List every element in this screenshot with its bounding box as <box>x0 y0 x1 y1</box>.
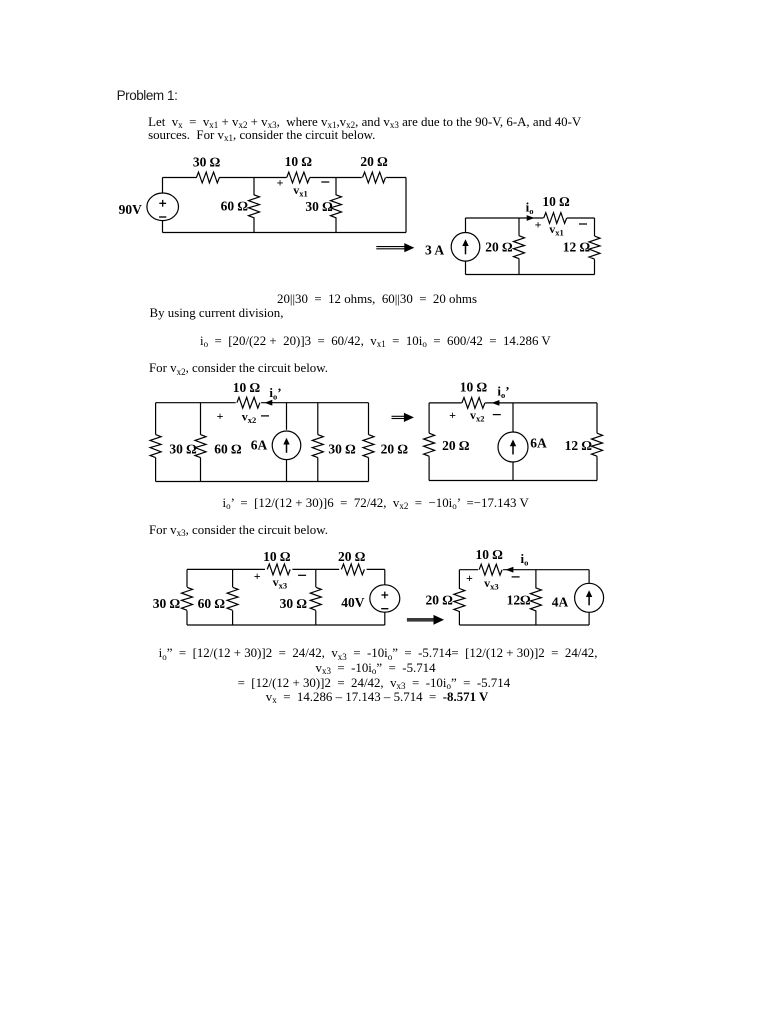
wire C2R bottom <box>429 480 597 482</box>
svg-text:30 Ω: 30 Ω <box>169 442 197 457</box>
svg-text:20 Ω: 20 Ω <box>381 442 409 457</box>
svg-text:vx3: vx3 <box>484 576 499 592</box>
resistor 20ohm C2R left branch <box>428 403 430 433</box>
resistor 30ohm C1L vertical <box>331 195 342 218</box>
resistor 10ohm C2L top <box>237 397 260 408</box>
svg-text:60 Ω: 60 Ω <box>221 198 249 213</box>
svg-text:+: + <box>254 569 261 583</box>
resistor 30ohm C3L left branch <box>186 569 188 587</box>
wire C1L 30ohm branch <box>335 178 337 196</box>
svg-text:6A: 6A <box>251 438 268 453</box>
svg-text:12Ω: 12Ω <box>507 592 532 607</box>
svg-text:+: + <box>535 218 542 232</box>
svg-text:io: io <box>526 199 534 216</box>
svg-text:10 Ω: 10 Ω <box>263 549 291 564</box>
resistor 20ohm C1L top <box>363 172 386 183</box>
svg-text:10 Ω: 10 Ω <box>542 194 570 209</box>
arrow io C3R <box>506 567 514 573</box>
wire C1L bottom <box>163 232 407 234</box>
svg-text:+: + <box>466 571 473 585</box>
svg-text:30 Ω: 30 Ω <box>280 596 308 611</box>
svg-text:30 Ω: 30 Ω <box>153 596 181 611</box>
resistor 20ohm C3R left branch <box>458 570 460 589</box>
big arrow row1 <box>376 246 407 248</box>
resistor 20ohm C3L top <box>341 564 364 575</box>
resistor 30ohm C2L right-mid branch <box>317 403 319 435</box>
wire C3R bottom <box>459 624 589 626</box>
svg-text:10 Ω: 10 Ω <box>233 380 261 395</box>
svg-text:10 Ω: 10 Ω <box>475 547 503 562</box>
svg-text:20 Ω: 20 Ω <box>442 438 470 453</box>
svg-text:12 Ω: 12 Ω <box>565 438 593 453</box>
svg-text:vx2: vx2 <box>242 410 257 426</box>
svg-text:10 Ω: 10 Ω <box>285 154 313 169</box>
svg-text:io: io <box>520 551 528 568</box>
wire C1R right branch <box>594 218 596 236</box>
wire C1R left branch <box>465 218 467 233</box>
polarity - vx3 C3R <box>512 576 520 578</box>
resistor 10ohm C3R top <box>479 564 502 575</box>
resistor 60ohm C2L branch <box>200 403 202 435</box>
svg-text:vx2: vx2 <box>470 408 485 424</box>
resistor 10ohm C1R <box>544 213 567 224</box>
svg-text:30 Ω: 30 Ω <box>193 155 221 170</box>
big arrow row2 <box>392 415 407 417</box>
wire C3R top <box>459 569 478 571</box>
current source 6A C2L <box>286 403 288 430</box>
svg-text:20 Ω: 20 Ω <box>485 239 513 254</box>
wire C1L top <box>163 177 197 179</box>
arrow io C1R <box>527 215 535 221</box>
polarity - vx2 C2R <box>493 414 501 416</box>
wire C1R 20ohm branch <box>518 218 520 236</box>
resistor 60ohm C1L <box>249 195 260 218</box>
svg-text:30 Ω: 30 Ω <box>328 442 356 457</box>
resistor 10ohm C1L top <box>287 172 310 183</box>
svg-text:4A: 4A <box>552 595 569 610</box>
polarity - vx2 C2L <box>261 415 269 417</box>
svg-text:+: + <box>277 176 284 190</box>
svg-text:30 Ω: 30 Ω <box>305 199 333 214</box>
svg-text:90V: 90V <box>119 202 143 217</box>
wire C2L top <box>156 402 236 404</box>
svg-text:20 Ω: 20 Ω <box>425 593 453 608</box>
resistor 30ohm C3L mid branch <box>315 569 317 587</box>
wire C3L bottom <box>187 624 385 626</box>
resistor 20ohm C2L right branch <box>368 403 370 435</box>
svg-text:vx3: vx3 <box>273 575 288 591</box>
wire C1R bottom <box>466 274 595 276</box>
arrow io-prime C2L <box>265 400 273 406</box>
resistor 30ohm C1L top <box>196 172 219 183</box>
current source 4A C3R <box>588 570 590 584</box>
svg-text:12 Ω: 12 Ω <box>563 239 591 254</box>
resistor 30ohm C2L left branch <box>155 403 157 435</box>
svg-text:60 Ω: 60 Ω <box>198 596 226 611</box>
wire C1L left branch <box>162 178 164 194</box>
voltage source 40V C3L <box>384 569 386 585</box>
resistor 10ohm C2R top <box>462 398 485 409</box>
wire C3L top <box>187 568 265 570</box>
polarity - vx3 C3L <box>298 574 306 576</box>
svg-text:vx1: vx1 <box>293 183 308 199</box>
wire C2R top <box>429 402 462 404</box>
svg-text:io’: io’ <box>269 385 281 402</box>
arrow io-prime C2R <box>492 400 500 406</box>
resistor 20ohm C1R <box>514 236 525 259</box>
resistor 12ohm C3R branch <box>535 570 537 589</box>
svg-text:60 Ω: 60 Ω <box>214 442 242 457</box>
wire C1L right branch <box>405 178 407 233</box>
svg-text:3 A: 3 A <box>425 242 444 257</box>
svg-text:10 Ω: 10 Ω <box>460 380 488 395</box>
polarity - vx1 C1L <box>321 181 329 183</box>
resistor 10ohm C3L top <box>267 564 290 575</box>
resistor 12ohm C2R right branch <box>596 403 598 433</box>
current source 6A C2R <box>512 403 514 432</box>
svg-text:6A: 6A <box>530 436 547 451</box>
big arrow row3 <box>407 618 436 622</box>
current source 3A <box>451 233 480 262</box>
svg-text:+: + <box>217 409 224 423</box>
svg-text:40V: 40V <box>341 595 365 610</box>
wire C1L 60ohm branch <box>253 178 255 196</box>
wire C2L bottom <box>156 481 369 483</box>
svg-text:+: + <box>449 408 456 422</box>
svg-text:20 Ω: 20 Ω <box>338 549 366 564</box>
resistor 60ohm C3L branch <box>232 569 234 587</box>
svg-text:20 Ω: 20 Ω <box>360 154 388 169</box>
wire C1R top <box>466 217 544 219</box>
svg-text:io’: io’ <box>497 384 509 401</box>
voltage source 90V <box>147 193 179 221</box>
polarity - vx1 C1R <box>579 223 587 225</box>
resistor 12ohm C1R <box>589 236 600 259</box>
